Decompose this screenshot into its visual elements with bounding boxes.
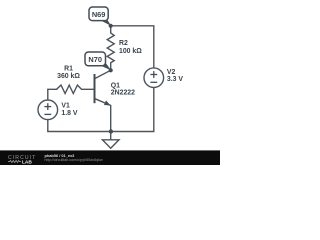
svg-text:V2: V2 [167, 69, 176, 76]
svg-text:3.3 V: 3.3 V [167, 76, 183, 83]
svg-text:http://circuitlab.com/c/pyh55d: http://circuitlab.com/c/pyh55dc6qkw [45, 158, 104, 162]
svg-text:V1: V1 [61, 103, 70, 110]
svg-text:Q1: Q1 [111, 82, 120, 89]
svg-text:N70: N70 [88, 55, 102, 64]
svg-text:N69: N69 [92, 10, 106, 19]
svg-text:360 kΩ: 360 kΩ [57, 73, 80, 80]
svg-text:100 kΩ: 100 kΩ [119, 48, 142, 55]
svg-text:R2: R2 [119, 40, 128, 47]
svg-text:LAB: LAB [22, 159, 32, 165]
svg-text:1.8 V: 1.8 V [61, 110, 77, 117]
svg-text:2N2222: 2N2222 [111, 90, 135, 97]
svg-text:R1: R1 [64, 66, 73, 73]
